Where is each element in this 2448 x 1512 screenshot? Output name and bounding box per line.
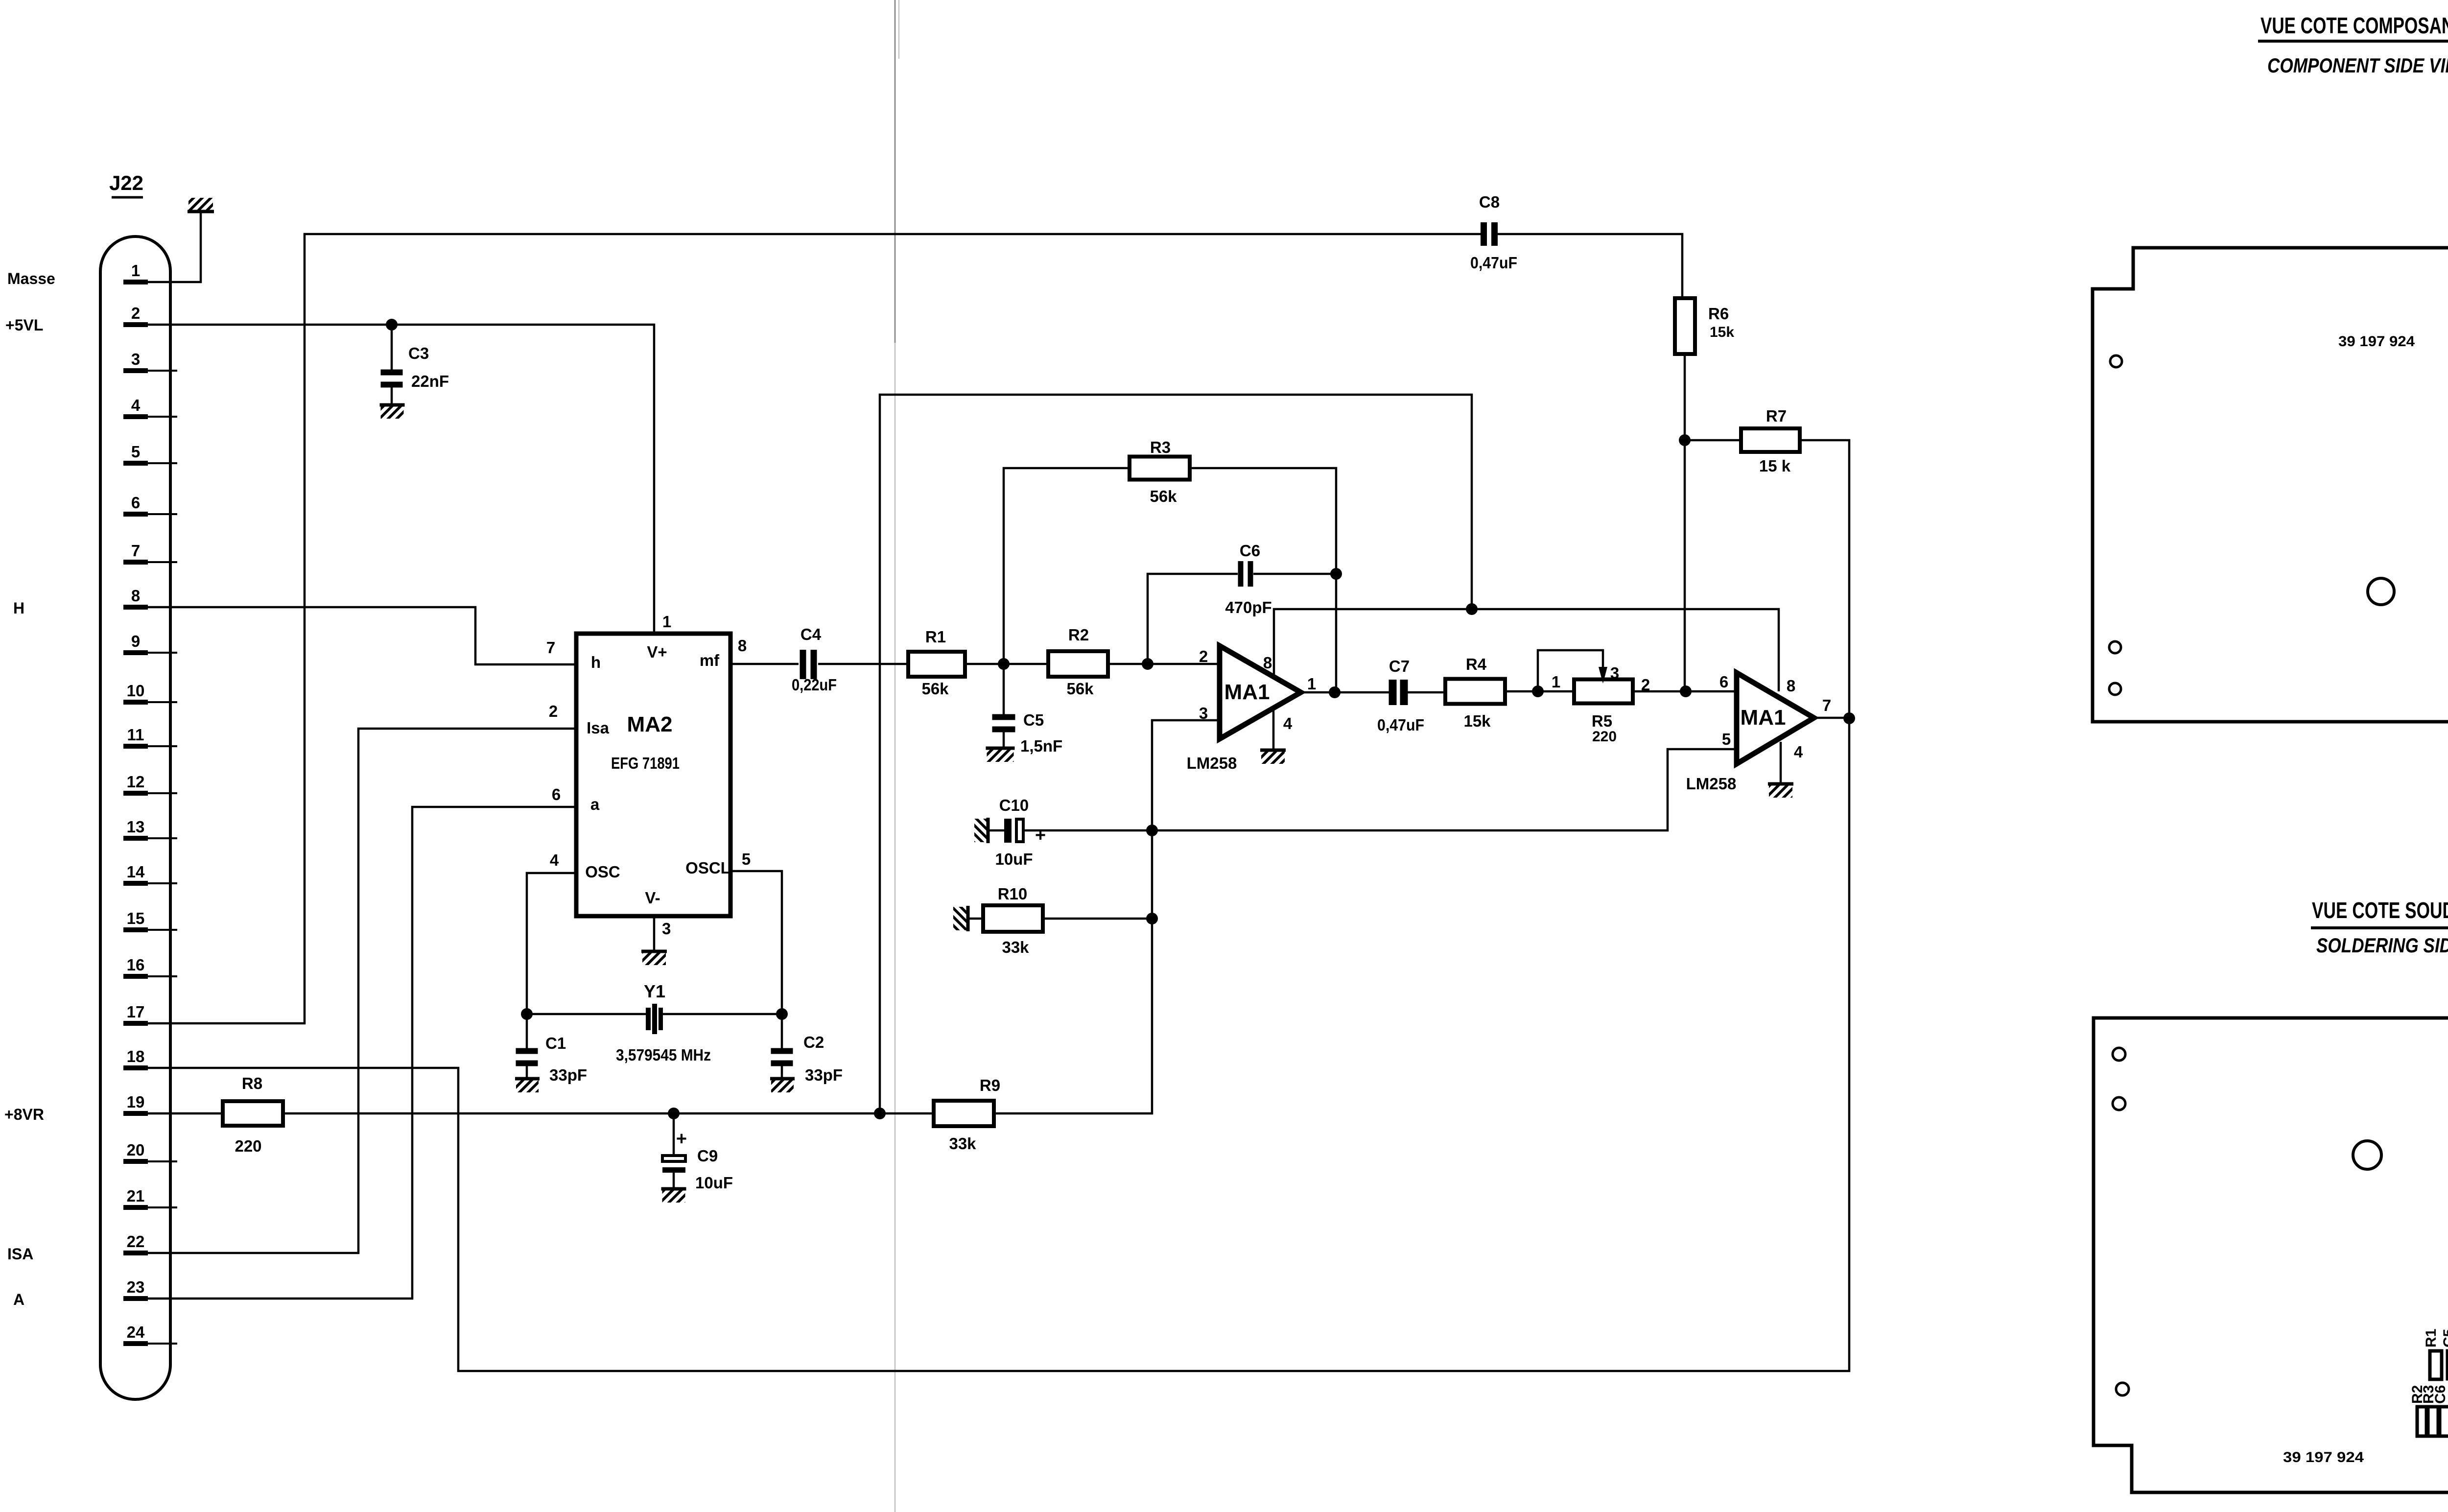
svg-text:1: 1 bbox=[1307, 675, 1316, 693]
svg-text:R1: R1 bbox=[2423, 1329, 2439, 1347]
svg-text:0,47uF: 0,47uF bbox=[1377, 716, 1424, 734]
svg-text:3: 3 bbox=[662, 920, 671, 938]
svg-text:MA2: MA2 bbox=[627, 712, 673, 736]
svg-text:4: 4 bbox=[1283, 714, 1293, 732]
svg-text:14: 14 bbox=[127, 863, 145, 881]
svg-text:4: 4 bbox=[550, 851, 559, 869]
svg-text:56k: 56k bbox=[921, 680, 949, 698]
svg-text:33k: 33k bbox=[1002, 938, 1029, 956]
svg-text:C3: C3 bbox=[408, 344, 429, 362]
svg-text:56k: 56k bbox=[1150, 487, 1177, 505]
svg-text:Y1: Y1 bbox=[644, 981, 665, 1001]
svg-text:22: 22 bbox=[127, 1232, 145, 1251]
svg-text:C9: C9 bbox=[697, 1147, 718, 1165]
svg-text:V+: V+ bbox=[647, 643, 667, 661]
svg-text:33pF: 33pF bbox=[549, 1066, 587, 1084]
svg-text:1: 1 bbox=[662, 613, 671, 631]
svg-text:21: 21 bbox=[127, 1187, 145, 1205]
svg-text:10uF: 10uF bbox=[995, 850, 1033, 868]
svg-text:R5: R5 bbox=[1592, 712, 1612, 730]
svg-text:17: 17 bbox=[127, 1003, 145, 1021]
svg-text:220: 220 bbox=[235, 1137, 261, 1155]
svg-text:LM258: LM258 bbox=[1187, 754, 1237, 772]
svg-text:16: 16 bbox=[127, 956, 145, 974]
svg-text:COMPONENT SIDE VIEW: COMPONENT SIDE VIEW bbox=[2267, 54, 2448, 77]
svg-text:C10: C10 bbox=[999, 796, 1029, 814]
svg-text:R3: R3 bbox=[1150, 438, 1171, 456]
svg-text:4: 4 bbox=[131, 396, 141, 414]
svg-text:C7: C7 bbox=[1389, 657, 1410, 675]
svg-text:33pF: 33pF bbox=[805, 1066, 843, 1084]
svg-text:12: 12 bbox=[127, 773, 145, 791]
svg-text:LM258: LM258 bbox=[1686, 775, 1737, 793]
svg-text:H: H bbox=[13, 599, 24, 617]
svg-text:6: 6 bbox=[1719, 673, 1728, 691]
svg-text:+5VL: +5VL bbox=[5, 316, 43, 334]
svg-text:C2: C2 bbox=[803, 1033, 824, 1051]
svg-text:4: 4 bbox=[1794, 743, 1803, 761]
svg-text:3: 3 bbox=[131, 350, 140, 368]
svg-text:8: 8 bbox=[1263, 654, 1272, 672]
svg-text:J22: J22 bbox=[109, 171, 143, 194]
svg-text:10uF: 10uF bbox=[695, 1174, 733, 1192]
svg-text:19: 19 bbox=[127, 1093, 145, 1111]
svg-text:R4: R4 bbox=[1466, 655, 1487, 673]
svg-text:C5: C5 bbox=[1023, 711, 1044, 729]
svg-text:15: 15 bbox=[127, 909, 145, 927]
svg-text:3: 3 bbox=[1610, 664, 1619, 682]
svg-text:33k: 33k bbox=[949, 1134, 976, 1153]
svg-text:5: 5 bbox=[742, 850, 751, 868]
svg-text:a: a bbox=[590, 795, 600, 813]
svg-text:3: 3 bbox=[1199, 704, 1208, 722]
svg-text:R2: R2 bbox=[1068, 626, 1089, 644]
svg-text:C6: C6 bbox=[2432, 1385, 2448, 1404]
svg-text:0,47uF: 0,47uF bbox=[1470, 254, 1517, 272]
svg-text:3,579545 MHz: 3,579545 MHz bbox=[616, 1046, 711, 1064]
svg-text:Masse: Masse bbox=[7, 270, 55, 287]
svg-text:15k: 15k bbox=[1710, 324, 1734, 340]
svg-text:7: 7 bbox=[1822, 696, 1831, 714]
svg-text:0,22uF: 0,22uF bbox=[792, 676, 837, 694]
svg-text:+: + bbox=[1035, 825, 1046, 846]
svg-text:13: 13 bbox=[127, 818, 145, 836]
svg-text:5: 5 bbox=[1722, 730, 1731, 748]
svg-text:39 197 924: 39 197 924 bbox=[2338, 333, 2415, 350]
svg-text:2: 2 bbox=[549, 702, 558, 720]
svg-text:8: 8 bbox=[131, 587, 140, 605]
svg-text:C6: C6 bbox=[1240, 542, 1260, 560]
svg-text:V-: V- bbox=[645, 889, 660, 907]
svg-text:470pF: 470pF bbox=[1225, 598, 1271, 616]
svg-text:C8: C8 bbox=[1479, 193, 1500, 211]
svg-text:10: 10 bbox=[127, 682, 145, 700]
svg-text:MA1: MA1 bbox=[1741, 706, 1786, 730]
svg-text:+: + bbox=[676, 1129, 687, 1149]
svg-text:C5: C5 bbox=[2441, 1329, 2448, 1347]
svg-text:C1: C1 bbox=[545, 1034, 566, 1052]
svg-text:20: 20 bbox=[127, 1141, 145, 1159]
svg-text:1: 1 bbox=[131, 261, 140, 280]
svg-text:7: 7 bbox=[131, 542, 140, 560]
svg-text:11: 11 bbox=[127, 726, 144, 744]
svg-text:A: A bbox=[13, 1291, 24, 1308]
svg-text:OSCL: OSCL bbox=[685, 859, 730, 877]
svg-text:VUE COTE COMPOSANTS: VUE COTE COMPOSANTS bbox=[2260, 13, 2448, 38]
svg-text:9: 9 bbox=[131, 632, 140, 650]
svg-text:6: 6 bbox=[552, 785, 561, 803]
svg-text:R6: R6 bbox=[1708, 305, 1729, 323]
svg-text:24: 24 bbox=[127, 1323, 145, 1341]
svg-text:R10: R10 bbox=[998, 885, 1028, 903]
svg-text:MA1: MA1 bbox=[1224, 680, 1270, 704]
svg-text:18: 18 bbox=[127, 1047, 145, 1065]
svg-text:Isa: Isa bbox=[587, 719, 610, 737]
svg-text:h: h bbox=[591, 653, 601, 671]
svg-text:15 k: 15 k bbox=[1759, 457, 1791, 475]
svg-text:+8VR: +8VR bbox=[4, 1106, 44, 1123]
svg-text:56k: 56k bbox=[1066, 680, 1094, 698]
svg-text:VUE COTE SOUDURES: VUE COTE SOUDURES bbox=[2312, 898, 2448, 923]
svg-text:mf: mf bbox=[700, 651, 720, 669]
svg-text:EFG 71891: EFG 71891 bbox=[611, 754, 680, 772]
svg-text:C4: C4 bbox=[800, 625, 822, 643]
svg-text:SOLDERING SIDE VIEW: SOLDERING SIDE VIEW bbox=[2316, 934, 2448, 957]
svg-text:1,5nF: 1,5nF bbox=[1020, 737, 1062, 755]
svg-text:R7: R7 bbox=[1766, 407, 1787, 425]
svg-text:5: 5 bbox=[131, 443, 140, 461]
svg-text:2: 2 bbox=[131, 304, 140, 322]
svg-text:ISA: ISA bbox=[7, 1245, 33, 1263]
svg-text:39 197 924: 39 197 924 bbox=[2283, 1449, 2364, 1465]
svg-text:R1: R1 bbox=[925, 628, 946, 646]
svg-text:R8: R8 bbox=[242, 1074, 262, 1092]
svg-text:R9: R9 bbox=[980, 1076, 1000, 1094]
svg-text:1: 1 bbox=[1552, 673, 1560, 691]
svg-text:8: 8 bbox=[1787, 677, 1795, 695]
svg-text:8: 8 bbox=[738, 637, 747, 655]
svg-text:22nF: 22nF bbox=[411, 372, 449, 390]
svg-text:220: 220 bbox=[1592, 729, 1617, 745]
svg-text:2: 2 bbox=[1199, 647, 1208, 665]
svg-text:OSC: OSC bbox=[585, 863, 620, 881]
svg-text:7: 7 bbox=[546, 638, 555, 657]
svg-text:15k: 15k bbox=[1463, 712, 1491, 730]
svg-text:23: 23 bbox=[127, 1278, 145, 1296]
svg-text:6: 6 bbox=[131, 494, 140, 512]
